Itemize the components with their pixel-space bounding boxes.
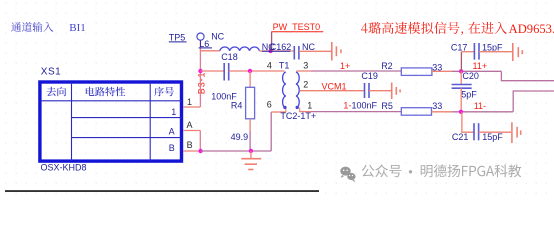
test point TP5 circle xyxy=(197,33,204,40)
svg-text:1: 1 xyxy=(187,97,192,107)
wire L6 to C162 xyxy=(259,50,294,52)
annotation 4璐高速模拟信号 xyxy=(361,22,463,36)
table header 电路特性 xyxy=(86,87,125,96)
svg-text:B: B xyxy=(187,140,193,150)
junction C18 tap xyxy=(198,69,202,73)
PW_TEST0 underline xyxy=(271,31,323,33)
pin A stub xyxy=(183,130,200,132)
wire T1 pin3 stub xyxy=(297,70,312,72)
watermark text 公众号 xyxy=(362,164,402,177)
junction ground xyxy=(249,149,253,153)
wire C21 to ground xyxy=(479,131,511,133)
svg-text:TC2-1T+: TC2-1T+ xyxy=(280,111,316,121)
resistor R4 body xyxy=(246,87,255,119)
svg-text:11-: 11- xyxy=(474,101,486,111)
svg-text:L6: L6 xyxy=(199,39,209,49)
wire C18 to T1 pin4 xyxy=(229,70,285,72)
svg-text:TP5: TP5 xyxy=(169,32,186,42)
power ground right of C162 xyxy=(331,42,333,61)
wire T1 pin6 drop xyxy=(270,112,272,151)
junction PW_TEST0 xyxy=(268,49,272,53)
svg-text:3: 3 xyxy=(303,60,308,70)
table header 序号 xyxy=(154,87,174,96)
wire R5 out xyxy=(432,111,453,113)
wire T1 pin6 stub xyxy=(271,111,286,113)
wire T1 pin2 VCM1 xyxy=(300,90,365,92)
svg-text:C20: C20 xyxy=(462,71,479,81)
junction 11- xyxy=(459,110,463,114)
svg-text:B3-1: B3-1 xyxy=(197,72,207,95)
svg-text:BI1: BI1 xyxy=(69,22,86,34)
watermark text 明德扬FPGA科教 xyxy=(421,164,522,177)
wire to C17 xyxy=(461,51,474,53)
sheet title 通道输入 xyxy=(11,22,53,32)
wire riser to C17 xyxy=(460,52,462,72)
connector XS1 body xyxy=(40,82,182,161)
capacitor C17 plates xyxy=(473,43,475,60)
separator line xyxy=(5,190,319,192)
capacitor C20 plates xyxy=(452,84,472,86)
svg-text:NC: NC xyxy=(211,32,224,42)
T1 polarity dot primary xyxy=(283,106,286,109)
capacitor C21 plates xyxy=(473,123,475,140)
svg-text:C17: C17 xyxy=(451,42,468,52)
svg-text:PW_TEST0: PW_TEST0 xyxy=(273,22,321,32)
svg-text:C18: C18 xyxy=(221,52,238,62)
svg-text:1+: 1+ xyxy=(340,61,350,71)
pin B stub xyxy=(183,150,200,152)
power ground right of C21 xyxy=(511,122,513,143)
svg-text:C19: C19 xyxy=(361,71,378,81)
svg-text:1: 1 xyxy=(171,107,176,117)
wire to L6 xyxy=(200,50,219,52)
svg-text:VCM1: VCM1 xyxy=(322,81,347,91)
wire R2 out xyxy=(432,70,452,72)
svg-text:15pF: 15pF xyxy=(482,42,503,52)
svg-text:6: 6 xyxy=(267,100,272,110)
wire B3-1 to C18 xyxy=(201,70,225,72)
svg-text:T1: T1 xyxy=(279,60,290,70)
svg-text:R4: R4 xyxy=(231,101,243,111)
resistor R5 body xyxy=(401,108,431,116)
wire pin A to B xyxy=(199,131,201,152)
wire C17 to ground xyxy=(479,51,512,53)
wire C20 bottom xyxy=(460,88,462,112)
wire 11+ exit step xyxy=(501,71,554,80)
power ground right of C19 xyxy=(391,83,393,100)
capacitor C162 plates xyxy=(293,46,295,60)
svg-text:A: A xyxy=(169,127,175,137)
junction R4 tap xyxy=(248,69,252,73)
transformer T1 primary winding xyxy=(283,72,286,108)
wire net 1- xyxy=(311,111,401,113)
svg-text:OSX-KHD8: OSX-KHD8 xyxy=(41,162,87,172)
wire T1 pin1 elbow xyxy=(299,108,301,112)
L6 underline xyxy=(199,47,212,49)
svg-text:R2: R2 xyxy=(381,61,393,71)
table header 去向 xyxy=(47,87,67,96)
inductor L6 coil xyxy=(220,47,260,51)
svg-text:2: 2 xyxy=(303,79,308,89)
svg-text:33: 33 xyxy=(432,101,442,111)
wire PW_TEST0 drop xyxy=(271,32,273,51)
svg-text:XS1: XS1 xyxy=(41,66,61,77)
junction pin B xyxy=(198,149,202,153)
wire C162 to ground xyxy=(299,50,331,52)
pin 1 stub xyxy=(183,106,200,108)
watermark dot separator xyxy=(409,170,412,173)
NC C162 underline xyxy=(262,50,291,52)
svg-text:4: 4 xyxy=(267,60,272,70)
svg-text:C162: C162 xyxy=(270,42,292,52)
ground symbol xyxy=(241,151,261,170)
wire net B3-1 riser xyxy=(199,40,201,107)
power ground right of C17 xyxy=(512,43,514,61)
capacitor C18 plates xyxy=(223,63,225,81)
wire R4 bottom xyxy=(249,119,251,131)
svg-text:B: B xyxy=(169,143,175,153)
wire C21 drop xyxy=(462,112,474,132)
ground wire xyxy=(201,150,272,152)
wire net 1+ xyxy=(311,70,401,72)
TP5 underline xyxy=(169,41,187,43)
capacitor C19 plates xyxy=(364,83,366,98)
wire C20 top xyxy=(460,71,462,84)
annotation 在进入 xyxy=(468,22,507,34)
svg-text:R5: R5 xyxy=(381,101,393,111)
svg-text:1: 1 xyxy=(307,101,312,111)
svg-text:C21: C21 xyxy=(452,132,469,142)
svg-text:15pF: 15pF xyxy=(482,132,503,142)
wire C19 to ground xyxy=(369,90,391,92)
resistor R2 body xyxy=(401,68,432,76)
wire to 11+ junction xyxy=(452,70,501,72)
svg-text:1-: 1- xyxy=(343,101,351,111)
T1 polarity dot secondary xyxy=(296,106,299,109)
wire T1 pin1 stub xyxy=(299,111,311,113)
svg-text:AD9653.: AD9653. xyxy=(509,22,554,36)
junction 11+ xyxy=(459,69,463,73)
svg-text:5pF: 5pF xyxy=(461,90,477,100)
watermark wechat logo xyxy=(340,167,355,182)
wire R4 top xyxy=(249,71,251,87)
svg-text:NC: NC xyxy=(302,42,315,52)
wire to 11- junction xyxy=(452,111,513,113)
transformer T1 secondary winding xyxy=(296,72,299,108)
svg-text:11+: 11+ xyxy=(473,61,488,71)
svg-text:100nF: 100nF xyxy=(352,101,378,111)
wire 11- exit step xyxy=(513,91,554,112)
svg-text:49.9: 49.9 xyxy=(231,132,249,142)
svg-text:A: A xyxy=(187,120,193,130)
